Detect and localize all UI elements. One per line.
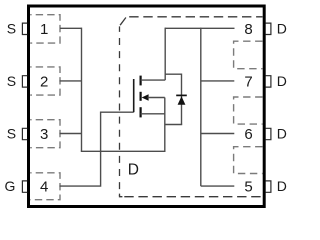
pin 7 lead bracket (265, 76, 271, 87)
MOSFET Q1 gate bar (133, 79, 135, 112)
svg-text:7: 7 (244, 73, 252, 90)
svg-text:8: 8 (244, 21, 252, 38)
body diode D1 anode triangle (178, 96, 186, 105)
wire diode bottom branch (165, 124, 182, 126)
pin 7-6 drain pad (dashed) (234, 97, 263, 124)
pin 1 lead bracket (22, 23, 27, 34)
svg-text:4: 4 (40, 178, 48, 195)
wire drain bus vertical (200, 28, 202, 187)
svg-text:1: 1 (40, 21, 48, 38)
svg-text:D: D (277, 20, 287, 36)
svg-text:D: D (128, 162, 139, 179)
MOSFET Q1 source lead (141, 113, 165, 115)
svg-text:2: 2 (40, 73, 48, 90)
svg-text:G: G (5, 178, 16, 194)
pin 8 lead bracket (265, 23, 271, 34)
MOSFET Q1 body lead (148, 97, 165, 99)
wire pin 1 to source bus (60, 27, 82, 29)
MOSFET Q1 drain lead (141, 79, 166, 81)
die pad D region bottom-left corner (120, 194, 123, 197)
svg-text:S: S (7, 73, 16, 89)
die pad D region outline (127, 16, 263, 18)
svg-text:D: D (277, 126, 287, 142)
die pad D region bottom edge (120, 196, 263, 198)
pin 6 lead bracket (265, 128, 271, 139)
pin 8-7 drain pad (dashed) (234, 41, 263, 68)
wire source vertical riser (164, 98, 166, 153)
MOSFET Q1 source channel segment (140, 107, 142, 117)
svg-text:S: S (7, 126, 16, 142)
svg-text:6: 6 (244, 126, 252, 143)
wire source bus vertical (81, 28, 83, 152)
pin 3 lead bracket (22, 128, 27, 139)
wire diode top branch (165, 73, 181, 75)
pin 1 pad (dashed) (30, 15, 60, 43)
wire pin 8 to drain (165, 27, 234, 29)
wire drain vertical riser (164, 28, 166, 81)
pin 2 lead bracket (22, 76, 27, 87)
wire pin 7 from drain bus (201, 80, 235, 82)
svg-text:5: 5 (244, 178, 252, 195)
MOSFET Q1 drain channel segment (140, 76, 142, 86)
svg-text:D: D (277, 73, 287, 89)
package outline (29, 6, 265, 207)
wire pin 3 to source bus (60, 133, 82, 135)
svg-text:S: S (7, 20, 16, 36)
pin 3 pad (dashed) (30, 120, 60, 148)
wire pin 6 from drain bus (201, 133, 235, 135)
pin 4 pad (dashed) (30, 173, 60, 200)
pin 2 pad (dashed) (30, 67, 60, 95)
body diode D1 cathode bar (176, 94, 187, 96)
svg-text:D: D (277, 178, 287, 194)
pin 4 lead bracket (22, 181, 27, 192)
wire pin 2 to source bus (60, 80, 82, 82)
MOSFET Q1 body channel segment (140, 92, 142, 101)
MOSFET Q1 body arrow (142, 94, 149, 101)
wire source link horizontal (81, 150, 165, 152)
pin 6-5 drain pad (dashed) (234, 147, 263, 174)
svg-text:3: 3 (40, 126, 48, 143)
pin 5 lead bracket (265, 181, 271, 192)
wire gate from pin 4 (60, 112, 134, 186)
wire diode vertical (181, 74, 183, 125)
wire pin 5 from drain bus (201, 185, 235, 187)
